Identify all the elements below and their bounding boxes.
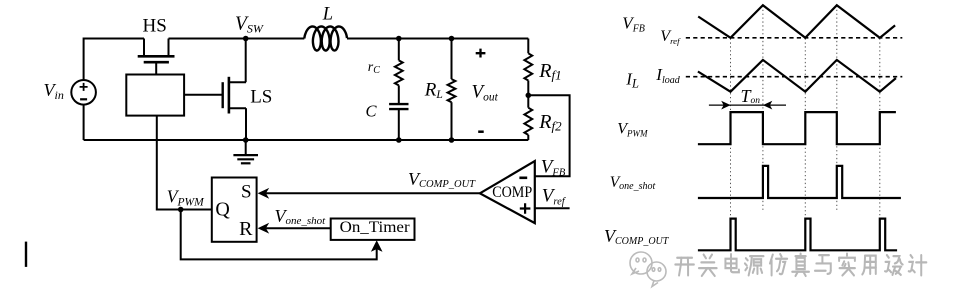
dashed Vref level (686, 37, 903, 39)
svg-text:LS: LS (250, 86, 272, 107)
resistor Rf1 (524, 39, 532, 96)
watermark text (675, 254, 926, 276)
waveform IL (698, 60, 896, 92)
wire: Vref input (535, 207, 570, 209)
wire: inductor to output rail (347, 38, 528, 40)
svg-text:Q: Q (215, 198, 230, 220)
wire: Vin top to HS drain (84, 39, 144, 81)
timing gridlines (731, 6, 880, 219)
wire: bottom rail (84, 139, 529, 141)
resistor RL (448, 39, 456, 141)
transistor LS (223, 77, 246, 114)
comparator plus sign (520, 203, 531, 214)
comparator U1 COMP (480, 161, 535, 223)
SR latch U2 (212, 178, 257, 242)
node: feedback divider junction (526, 93, 532, 99)
node VSW (243, 36, 249, 42)
node: RL bottom (449, 137, 455, 143)
resistor Rf2 (524, 95, 532, 140)
waveform Vone_shot (698, 166, 901, 198)
wire: Vin bottom to ground rail (83, 105, 85, 140)
wire: driver output to LS gate (184, 94, 223, 96)
transistor HS (138, 39, 175, 75)
node: rC branch bottom (396, 137, 402, 143)
Ton dimension arrows (709, 101, 786, 110)
capacitor C (389, 104, 408, 140)
node VPWM (178, 207, 184, 213)
label Vout plus (476, 49, 486, 58)
node: rC branch top (396, 36, 402, 42)
driver block (126, 75, 184, 116)
svg-text:C: C (366, 101, 378, 120)
ground (233, 140, 258, 163)
node: LS source rail junction (243, 137, 249, 143)
inductor L (304, 27, 347, 51)
waveform VFB (698, 5, 895, 38)
wire: VSW down to LS drain (245, 39, 247, 83)
svg-text:L: L (322, 5, 333, 25)
waveform VPWM (698, 112, 896, 144)
wire: LS source to rail (245, 108, 247, 140)
svg-text:S: S (241, 182, 252, 203)
voltage source Vin (71, 80, 96, 105)
on-timer block (331, 219, 415, 240)
wire: comparator output to latch S input (266, 192, 480, 194)
arrowhead into S (258, 188, 270, 199)
wire: divider junction to VFB input (528, 95, 569, 176)
svg-text:R: R (239, 218, 253, 240)
svg-text:HS: HS (143, 16, 167, 37)
dashed Iload level (686, 76, 903, 78)
wire: HS source to VSW to inductor (169, 38, 305, 40)
svg-text:On_Timer: On_Timer (340, 219, 411, 236)
watermark logo (630, 252, 666, 287)
stray cursor mark (25, 242, 27, 267)
waveform VCOMP_OUT (698, 219, 897, 251)
wire: VPWM feedback to on-timer trigger (181, 210, 377, 260)
comparator minus sign (519, 177, 527, 180)
svg-text:COMP: COMP (492, 184, 532, 201)
arrowhead into on-timer trigger (371, 240, 383, 252)
label Vout minus (478, 130, 484, 133)
node: RL top (449, 36, 455, 42)
arrowhead into R (258, 223, 270, 234)
wire: latch Q output to gate driver (157, 116, 212, 210)
resistor rC (395, 39, 403, 105)
wire: on-timer output to R input (266, 227, 331, 229)
